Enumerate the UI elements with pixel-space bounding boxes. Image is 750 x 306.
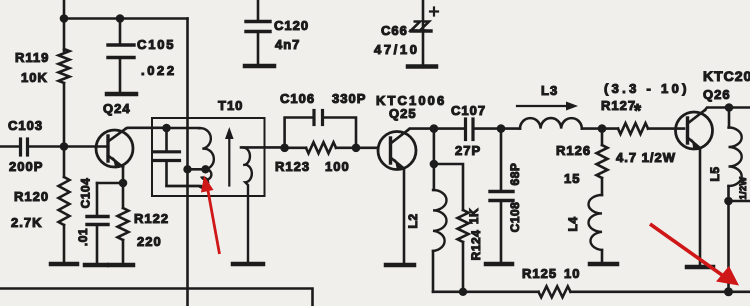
svg-text:15: 15 [564,171,580,186]
node bottom rail right junction [724,287,733,296]
ground C108 [486,262,512,267]
node T10 primary top junction [162,124,171,133]
svg-text:R122: R122 [134,211,169,226]
ground T10 secondary [233,262,263,267]
inductor T10 secondary [243,147,252,262]
svg-text:4n7: 4n7 [275,37,300,52]
resistor R126 [556,129,608,186]
resistor R127 [601,81,690,165]
transformer T10 box [152,118,265,196]
svg-text:R127: R127 [601,98,636,113]
svg-text:R120: R120 [14,189,49,204]
wire bottom rail right [433,290,750,293]
capacitor C106 bypass loop [280,91,366,148]
node C105 top junction [116,14,125,23]
ground R122 [109,263,133,268]
svg-text:C108: C108 [508,202,522,233]
wire top rail [64,17,188,20]
svg-text:.022: .022 [141,63,177,78]
node R123 left junction [280,144,289,153]
wire bottom rail left [0,289,313,306]
svg-text:KTC20: KTC20 [703,68,750,84]
capacitor C107 [451,103,500,158]
wire Q25 emitter down [403,169,406,264]
ground L4 [590,262,617,267]
svg-text:10: 10 [564,266,580,281]
svg-text:R119: R119 [15,50,49,65]
capacitor C108 [490,129,522,262]
arrow tuning inside T10 [225,127,234,186]
node L2 top junction [430,124,439,133]
capacitor inside T10 [155,128,202,186]
annotation red arrow 1 [201,176,220,255]
ground C104 [85,263,107,268]
capacitor C66 electrolytic [374,0,438,65]
svg-text:4.7 1/2W: 4.7 1/2W [616,150,676,165]
resistor R124 [458,208,484,292]
svg-text:KTC1006: KTC1006 [376,93,446,108]
node C108 top junction [497,124,506,133]
svg-text:10K: 10K [21,70,48,85]
node T10 winding tap left [183,165,191,173]
ground C105 [107,92,136,97]
resistor R120 [11,147,70,263]
svg-text:L4: L4 [566,216,580,231]
inductor T10 primary [167,128,214,188]
svg-text:47/10: 47/10 [374,42,420,57]
svg-text:C107: C107 [451,103,486,118]
svg-text:T10: T10 [218,98,243,113]
svg-text:2.7K: 2.7K [11,215,42,230]
node C103 junction [60,142,69,151]
wire secondary top out [241,146,285,149]
transistor Q25 [376,93,446,170]
svg-text:Q26: Q26 [703,87,731,102]
node L5 bottom junction [724,197,733,206]
node Q24 emitter junction [119,179,128,188]
svg-text:Q25: Q25 [389,106,417,121]
svg-text:Q24: Q24 [103,101,131,116]
svg-text:1/2W: 1/2W [738,176,748,199]
node L5 top junction [725,103,734,112]
svg-text:L2: L2 [406,213,420,228]
transistor Q26 [676,68,750,150]
node L2 emitter junction [430,160,439,169]
resistor R122 [118,183,170,263]
svg-text:*: * [634,101,642,121]
annotation red arrow 2 [650,224,739,286]
svg-text:C106: C106 [280,91,315,106]
svg-text:L3: L3 [541,83,558,98]
svg-text:27P: 27P [455,143,481,158]
ground Q25 emitter [386,263,414,268]
svg-text:200P: 200P [9,159,43,174]
wire supply feed from top edge [63,0,66,19]
svg-text:C104: C104 [79,178,93,209]
wire Q26 emitter down [699,148,702,265]
wire emitter to C104 [97,182,123,185]
ground R120 [51,262,77,267]
svg-text:R126: R126 [556,143,591,158]
svg-text:68P: 68P [508,163,522,186]
capacitor C104 [76,178,108,263]
svg-text:330P: 330P [332,91,366,106]
svg-text:C103: C103 [8,118,43,133]
transistor Q24 [96,101,133,169]
svg-text:R123: R123 [275,159,310,174]
node R124 bottom junction [459,288,467,296]
svg-text:C120: C120 [274,18,309,33]
capacitor C105 [108,19,177,93]
ground Q26 emitter [687,265,713,270]
inductor L5 [708,108,742,292]
svg-text:100: 100 [325,159,350,174]
wire Q25 collector rail [408,129,463,130]
node R126 top junction [598,124,607,133]
wire between taps [188,168,206,171]
svg-text:C66: C66 [381,23,408,38]
ground C66 [408,64,436,69]
svg-text:1K: 1K [467,208,481,224]
node top feed junction [60,14,69,23]
arrow above L3 [517,102,578,111]
wire to Q25 base [356,147,377,150]
inductor L3 [501,83,602,129]
svg-text:C105: C105 [137,37,175,52]
resistor R125 [522,266,580,297]
capacitor C120 [246,0,309,64]
resistor R123 [275,142,356,174]
wire Q26 collector out right [705,108,750,111]
wire to R124 [434,164,463,210]
ground C120 [245,64,274,69]
wire Q24 emitter down [122,167,125,183]
svg-text:R125: R125 [522,266,557,281]
wire Q24 collector to T10 [126,127,167,130]
node R123 right junction [352,144,361,153]
node T10 winding tap right [201,165,209,173]
svg-text:(3.3 - 10): (3.3 - 10) [604,81,690,96]
wire long vertical rail [186,19,189,306]
svg-text:.01: .01 [76,228,90,246]
wire L5 tap out right [729,200,750,203]
resistor R119 [15,19,70,147]
capacitor C103 [0,118,106,174]
inductor L2 [406,129,447,292]
svg-text:220: 220 [137,234,162,249]
svg-text:R124: R124 [469,230,483,261]
svg-text:L5: L5 [708,166,722,181]
inductor L4 [566,178,602,262]
